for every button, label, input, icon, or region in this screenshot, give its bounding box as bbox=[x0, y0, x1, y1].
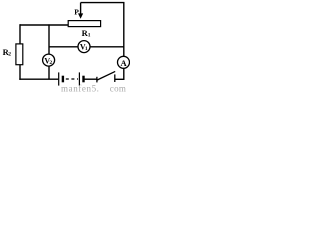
wire middle horizontal right (V1 to right border) bbox=[90, 46, 124, 48]
wire R2 bottom to bottom-left corner bbox=[19, 65, 21, 80]
potentiometer wiper arrowhead bbox=[78, 13, 83, 18]
wire top-left horizontal (node between R2 top and R1 left) bbox=[20, 24, 68, 26]
wire V2 bottom to bottom wire bbox=[48, 66, 50, 79]
wire switch post to bottom-right corner bbox=[115, 78, 125, 80]
svg-text:A: A bbox=[121, 58, 128, 68]
potentiometer R1 box bbox=[68, 21, 100, 27]
wire top (wiper to right border) bbox=[81, 2, 125, 4]
battery cell 1 long plate bbox=[58, 72, 60, 85]
svg-text:2: 2 bbox=[49, 60, 52, 66]
svg-text:com: com bbox=[110, 84, 126, 92]
battery cell 2 short thick plate bbox=[82, 76, 84, 83]
svg-text:P: P bbox=[74, 8, 79, 17]
wire right vertical from corner up to ammeter bbox=[123, 68, 125, 80]
wire bottom from corner to battery bbox=[19, 78, 58, 80]
ammeter A circle bbox=[118, 56, 130, 68]
wire right vertical from ammeter up to top-right corner bbox=[123, 2, 125, 56]
battery cell 2 long plate bbox=[78, 72, 80, 85]
switch blade (open) bbox=[97, 71, 115, 80]
voltmeter V2 circle bbox=[43, 54, 55, 66]
battery dashed middle (more cells) bbox=[66, 78, 78, 80]
svg-text:manfen5.: manfen5. bbox=[61, 84, 100, 92]
voltmeter V1 circle bbox=[78, 41, 90, 53]
svg-text:1: 1 bbox=[85, 46, 88, 52]
svg-text:2: 2 bbox=[8, 51, 11, 57]
wire middle vertical (top wire down to V2) bbox=[48, 24, 50, 54]
switch fixed post bbox=[114, 74, 116, 82]
resistor R2 box bbox=[16, 44, 23, 65]
wire middle horizontal left (junction to V1) bbox=[49, 46, 78, 48]
wire left vertical down to R2 bbox=[19, 24, 21, 44]
switch pivot tick bbox=[96, 77, 98, 83]
potentiometer wiper arrow shaft bbox=[80, 3, 82, 15]
svg-text:1: 1 bbox=[88, 32, 91, 38]
battery cell 1 short thick plate bbox=[62, 76, 64, 83]
wire battery to switch pivot bbox=[84, 78, 97, 80]
